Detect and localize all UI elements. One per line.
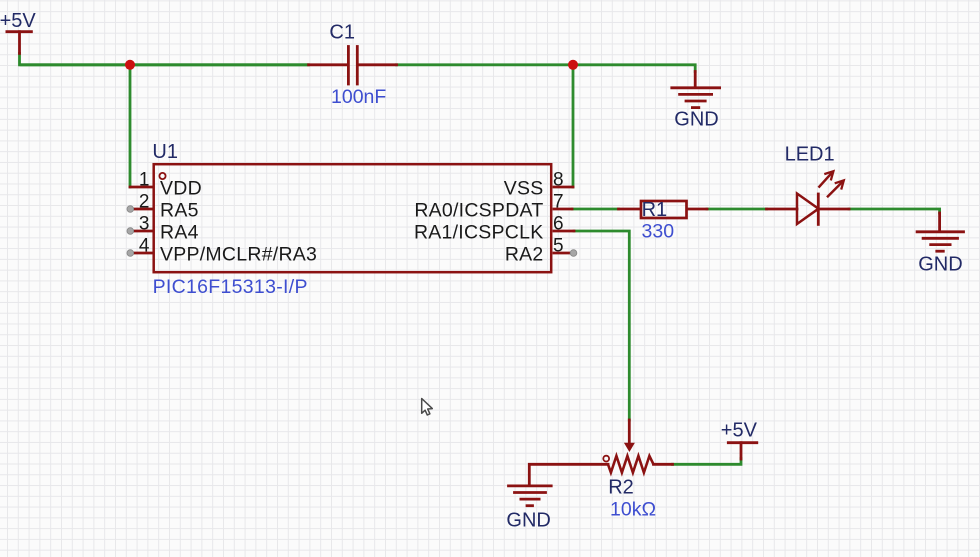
svg-text:7: 7 xyxy=(553,192,564,213)
svg-text:VPP/MCLR#/RA3: VPP/MCLR#/RA3 xyxy=(160,244,317,266)
svg-text:RA0/ICSPDAT: RA0/ICSPDAT xyxy=(414,200,543,222)
svg-text:100nF: 100nF xyxy=(331,86,386,108)
svg-text:R1: R1 xyxy=(642,199,668,221)
svg-text:GND: GND xyxy=(674,108,718,130)
svg-text:VSS: VSS xyxy=(504,178,544,200)
svg-text:330: 330 xyxy=(642,220,675,242)
svg-text:U1: U1 xyxy=(152,141,178,163)
svg-text:GND: GND xyxy=(506,510,550,532)
svg-text:+5V: +5V xyxy=(0,10,36,32)
svg-text:1: 1 xyxy=(139,170,150,191)
svg-text:4: 4 xyxy=(139,236,150,257)
svg-text:RA2: RA2 xyxy=(505,244,544,266)
svg-text:5: 5 xyxy=(553,236,564,257)
svg-text:3: 3 xyxy=(139,214,150,235)
svg-text:+5V: +5V xyxy=(721,419,758,441)
svg-text:R2: R2 xyxy=(608,476,634,498)
svg-text:GND: GND xyxy=(918,253,962,275)
svg-text:PIC16F15313-I/P: PIC16F15313-I/P xyxy=(153,276,308,298)
svg-text:RA4: RA4 xyxy=(160,222,199,244)
svg-text:VDD: VDD xyxy=(160,178,202,200)
svg-text:C1: C1 xyxy=(329,21,355,43)
svg-text:2: 2 xyxy=(139,192,150,213)
svg-text:RA5: RA5 xyxy=(160,200,199,222)
svg-text:10kΩ: 10kΩ xyxy=(610,499,656,521)
svg-text:LED1: LED1 xyxy=(785,143,835,165)
svg-text:6: 6 xyxy=(553,214,564,235)
svg-text:RA1/ICSPCLK: RA1/ICSPCLK xyxy=(414,222,544,244)
svg-text:8: 8 xyxy=(553,170,564,191)
